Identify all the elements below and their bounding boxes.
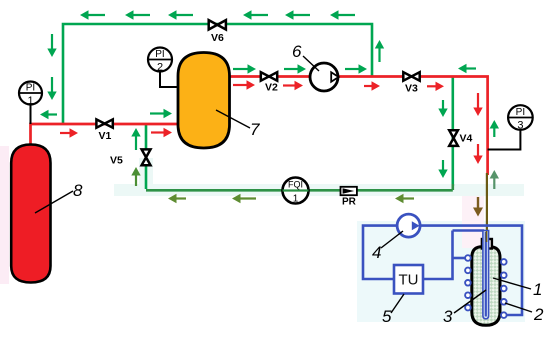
valve V6	[209, 20, 226, 44]
valve V4	[449, 130, 472, 146]
green flow arrow down V4 branch 1	[438, 100, 447, 117]
wire: green bypass through V5	[145, 124, 148, 189]
label 4 leader	[381, 231, 403, 248]
red flow arrow into vessel 7	[151, 128, 172, 137]
valve V2	[261, 72, 278, 93]
green flow arrow into vessel 7	[150, 109, 172, 118]
svg-text:V6: V6	[211, 32, 224, 44]
label 7	[250, 120, 260, 139]
gauge PI2 stem	[160, 72, 178, 88]
gauge PI1 stem	[30, 104, 32, 124]
svg-text:4: 4	[372, 243, 381, 262]
green flow arrow before pump 6	[284, 64, 306, 73]
wire: brown capillary into calorimeter	[486, 173, 488, 240]
background tint around V5 branch	[139, 158, 153, 186]
svg-text:1: 1	[533, 280, 542, 299]
background tint inside thermostat circuit box	[357, 221, 525, 322]
wire: green branch through V4	[451, 77, 454, 186]
label 3	[443, 307, 453, 326]
green flow arrow down-left 2	[47, 77, 56, 100]
svg-text:V5: V5	[110, 155, 123, 167]
green flow arrow up right pipe 1	[490, 120, 499, 137]
gauge PI3	[508, 105, 533, 131]
calorimeter neck	[482, 239, 492, 249]
label 5	[382, 307, 392, 326]
green flow arrow top 3	[168, 10, 193, 19]
green flow arrow up V5 branch 2	[131, 167, 140, 186]
pump 4	[397, 214, 420, 237]
label 2 leader	[505, 303, 532, 312]
green flow arrow toward V3	[458, 64, 476, 73]
green flow arrow down-left 1	[47, 34, 56, 57]
svg-text:TU: TU	[399, 272, 419, 289]
svg-text:FQI: FQI	[288, 180, 303, 190]
red flow arrow down right pipe 1	[473, 93, 482, 116]
green flow arrow after vessel 7	[233, 64, 256, 73]
green flow arrow top 1	[80, 10, 105, 19]
green flow arrow bottom line 1	[168, 194, 186, 203]
label 8	[73, 181, 83, 200]
red flow arrow after tank	[60, 128, 78, 137]
wire: red pipe vessel 7 outlet to right corner and down	[229, 77, 488, 176]
red flow arrow down right pipe 2	[473, 144, 482, 164]
label 1 leader	[493, 278, 531, 289]
wire: red pipe from tank 8 to vessel 7 inlet	[31, 124, 179, 146]
label 2	[533, 305, 544, 324]
green flow arrow top 6	[330, 10, 355, 19]
svg-text:PI: PI	[26, 83, 35, 94]
red flow arrow after pump 6	[364, 81, 380, 90]
svg-text:7: 7	[250, 120, 260, 139]
svg-text:6: 6	[292, 42, 302, 61]
svg-text:1: 1	[293, 194, 299, 205]
wire: TU to junction	[423, 231, 453, 280]
label 8 leader	[35, 191, 73, 213]
green flow arrow top 2	[125, 10, 150, 19]
red flow arrow after V3	[427, 82, 444, 91]
label 6	[292, 42, 302, 61]
brown flow arrow into calorimeter	[473, 197, 483, 217]
pressure regulator PR	[341, 187, 357, 208]
valve V1	[96, 119, 112, 142]
wire: green branch below V4	[451, 184, 454, 190]
svg-text:8: 8	[73, 181, 83, 200]
green flow arrow bottom line 2	[232, 194, 256, 203]
svg-text:1: 1	[27, 95, 33, 107]
brown capillary inside tube	[486, 231, 488, 242]
svg-text:PI: PI	[155, 49, 164, 60]
label 3 leader	[454, 290, 486, 313]
heater coil right column	[501, 259, 507, 318]
svg-text:V3: V3	[405, 83, 418, 95]
gauge PI3 stem	[488, 130, 521, 150]
svg-text:2: 2	[533, 305, 544, 324]
wire: junction to tube inlet	[453, 229, 485, 232]
green flow arrow after pump 6	[345, 64, 367, 73]
gauge PI1	[19, 82, 42, 108]
calorimeter vessel 1	[472, 247, 500, 325]
background pink tint around capillary arrow	[462, 196, 484, 248]
heater coil left column	[465, 255, 471, 310]
label 4	[372, 243, 381, 262]
red flow arrow after vessel 7	[233, 80, 255, 89]
green flow arrow down V4 branch 2	[438, 160, 447, 178]
green flow arrow up V5 branch 1	[131, 128, 140, 150]
svg-text:PI: PI	[516, 107, 525, 118]
green flow arrow bottom line 3	[395, 194, 414, 203]
wire: green return top line	[63, 24, 372, 124]
control unit TU box	[394, 265, 423, 294]
svg-text:V1: V1	[99, 130, 112, 142]
valve V3	[403, 72, 419, 94]
green flow arrow toward tank	[40, 110, 57, 119]
wire: green bottom return line through FQI and PR	[146, 189, 453, 192]
label 5 leader	[391, 294, 404, 313]
background tint band along bottom green line	[114, 184, 524, 196]
label 1	[533, 280, 542, 299]
wire: junction to coil	[453, 257, 466, 260]
svg-text:5: 5	[382, 307, 392, 326]
green flow arrow up to top line	[375, 40, 384, 62]
flow meter FQI1	[283, 178, 309, 205]
valve V5	[110, 149, 151, 166]
tank 8	[11, 145, 50, 283]
green flow arrow top 4	[243, 10, 268, 19]
pump 6	[310, 63, 339, 91]
svg-text:PR: PR	[342, 197, 357, 208]
background pink tint left of tank 8	[0, 146, 9, 284]
label 6 leader	[303, 56, 319, 71]
gauge PI2	[148, 48, 172, 74]
inner tube 3	[483, 231, 489, 319]
svg-text:3: 3	[517, 120, 523, 132]
green flow arrow up right pipe 2	[490, 170, 499, 189]
svg-text:3: 3	[443, 307, 453, 326]
label 7 leader	[216, 110, 250, 128]
thermostat circuit wiring	[363, 226, 522, 315]
red flow arrow before pump 6	[283, 81, 303, 90]
svg-text:2: 2	[157, 62, 163, 74]
svg-text:V2: V2	[265, 82, 278, 94]
green flow arrow top 5	[285, 10, 310, 19]
vessel 7	[178, 53, 230, 149]
svg-text:V4: V4	[460, 133, 473, 145]
